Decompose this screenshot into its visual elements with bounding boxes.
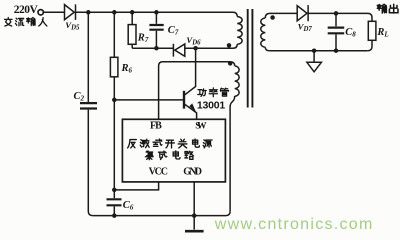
wire VCC pin to R6/C6 node — [114, 182, 158, 190]
resistor R6 — [110, 57, 118, 77]
svg-text:GND: GND — [183, 167, 202, 178]
polarity dot primary — [227, 43, 232, 48]
junction snubber node / C7 — [154, 46, 159, 51]
wire FB riser and aux top lead — [159, 62, 235, 120]
svg-text:220V: 220V — [14, 4, 39, 16]
wire secondary bottom line — [270, 50, 368, 52]
transistor emitter with arrow — [185, 103, 197, 119]
diode VD7 — [297, 5, 308, 21]
wire snubber node to diode VD6 — [132, 47, 173, 49]
IC title line2 (ji cheng dian lu) — [145, 151, 193, 160]
junction C8 top — [334, 11, 339, 16]
wire terminal to diode VD5 — [44, 11, 65, 13]
secondary winding W2 — [261, 13, 270, 50]
junction VCC / R6-C6 — [112, 188, 117, 193]
polarity dot aux — [228, 61, 233, 66]
wire GND pin to bottom rail and earth — [193, 182, 195, 230]
label output (shu chu) — [377, 4, 398, 13]
label AC input (jiao liu shu ru) — [4, 17, 46, 26]
earth ground bar — [185, 230, 204, 233]
junction top rail / C2 — [86, 10, 91, 15]
diode VD5 — [65, 4, 76, 20]
svg-text:FB: FB — [150, 121, 162, 132]
junction top rail / C7 — [154, 10, 159, 15]
capacitor C6 — [107, 199, 122, 205]
wire C7 branch upper — [155, 12, 157, 23]
wire C8 branch — [335, 13, 337, 50]
wire collector riser — [185, 48, 196, 95]
junction collector node — [193, 46, 198, 51]
polarity dot secondary — [270, 15, 275, 20]
wire R7 branch upper — [131, 12, 133, 24]
junction top rail / R6 — [112, 10, 117, 15]
svg-text:www.cntronics.com: www.cntronics.com — [214, 216, 372, 233]
wire VD6 to primary bottom — [185, 44, 237, 48]
wire aux winding lower lead — [230, 96, 235, 211]
wire C2 branch upper — [87, 12, 89, 102]
wire base from R6 node — [114, 99, 183, 101]
primary winding W1 — [237, 17, 242, 45]
wire C6 to bottom rail — [113, 206, 115, 215]
wire VD7 to output corner — [308, 13, 372, 21]
svg-text:SW: SW — [195, 122, 207, 132]
wire bottom rail — [93, 211, 231, 215]
junction base / R6 — [112, 98, 117, 103]
junction C8 bottom — [334, 48, 339, 53]
wire RL to bottom line — [368, 40, 372, 50]
wire R6 branch upper — [113, 12, 115, 57]
transistor 13001 base bar — [183, 91, 185, 109]
junction ground stub — [312, 48, 317, 53]
input terminal 220V — [38, 10, 43, 15]
transformer core — [248, 9, 253, 108]
wire secondary top to diode VD7 — [270, 12, 297, 14]
capacitor C8 — [328, 28, 345, 34]
junction top rail / R7 — [130, 10, 135, 15]
wire R7 to snubber node — [131, 44, 133, 48]
chassis ground triangle — [307, 62, 322, 72]
label power transistor (gong lv guan) — [198, 88, 229, 97]
wire top rail VD5 to primary — [76, 12, 238, 16]
resistor RL — [368, 21, 376, 40]
resistor R7 — [128, 25, 136, 45]
diode VD6 — [173, 44, 184, 57]
capacitor C7 — [149, 25, 163, 30]
wire R6 down through VCC node to C6 — [113, 77, 115, 198]
wire C2 to bottom rail — [88, 110, 92, 216]
junction bottom rail / GND — [192, 213, 197, 218]
capacitor C2 — [80, 103, 97, 108]
junction bottom rail / C6 — [112, 213, 117, 218]
aux winding W3 — [235, 66, 239, 96]
svg-text:13001: 13001 — [197, 99, 225, 111]
wire C7 to snubber node — [155, 31, 157, 48]
svg-text:VCC: VCC — [149, 167, 168, 178]
IC title line1 (fan ji shi kai guan dian yuan) — [128, 139, 213, 148]
wire ground stub — [313, 51, 315, 62]
IC box flyback SMPS controller U1 — [122, 119, 225, 182]
